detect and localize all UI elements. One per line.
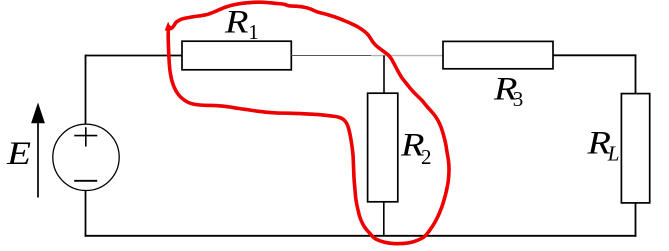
minus sign xyxy=(74,180,97,182)
resistor R3 xyxy=(443,41,553,68)
svg-text:L: L xyxy=(607,142,620,166)
wire right vertical bottom xyxy=(635,203,637,237)
wire gray dark R1-right xyxy=(291,55,371,57)
wire bottom horizontal xyxy=(85,235,637,237)
voltage source E circle xyxy=(53,124,119,190)
resistor R1 xyxy=(182,41,291,70)
svg-text:R: R xyxy=(224,5,249,41)
wire right vertical top xyxy=(635,55,637,94)
red annotation loop around R1 and R2 xyxy=(168,2,449,243)
wire left vertical (source bottom) xyxy=(85,190,87,236)
wire R2 top stub xyxy=(383,56,385,94)
resistor RL xyxy=(621,94,649,203)
wire R2 bottom stub xyxy=(383,202,385,236)
wire R3 right to corner xyxy=(553,54,636,56)
svg-text:E: E xyxy=(6,136,31,172)
svg-text:3: 3 xyxy=(513,87,524,111)
svg-text:1: 1 xyxy=(248,20,258,44)
resistor R2 xyxy=(368,93,398,202)
plus sign xyxy=(74,127,97,146)
red annotation start arrowhead xyxy=(165,22,172,31)
arrow (E direction) shaft xyxy=(37,121,39,198)
arrow (E direction) head xyxy=(31,103,45,124)
wire left vertical (source top) xyxy=(85,55,87,125)
wire top-left horizontal xyxy=(86,55,183,57)
svg-text:2: 2 xyxy=(421,145,432,169)
wire gray light to R3 xyxy=(371,55,443,57)
